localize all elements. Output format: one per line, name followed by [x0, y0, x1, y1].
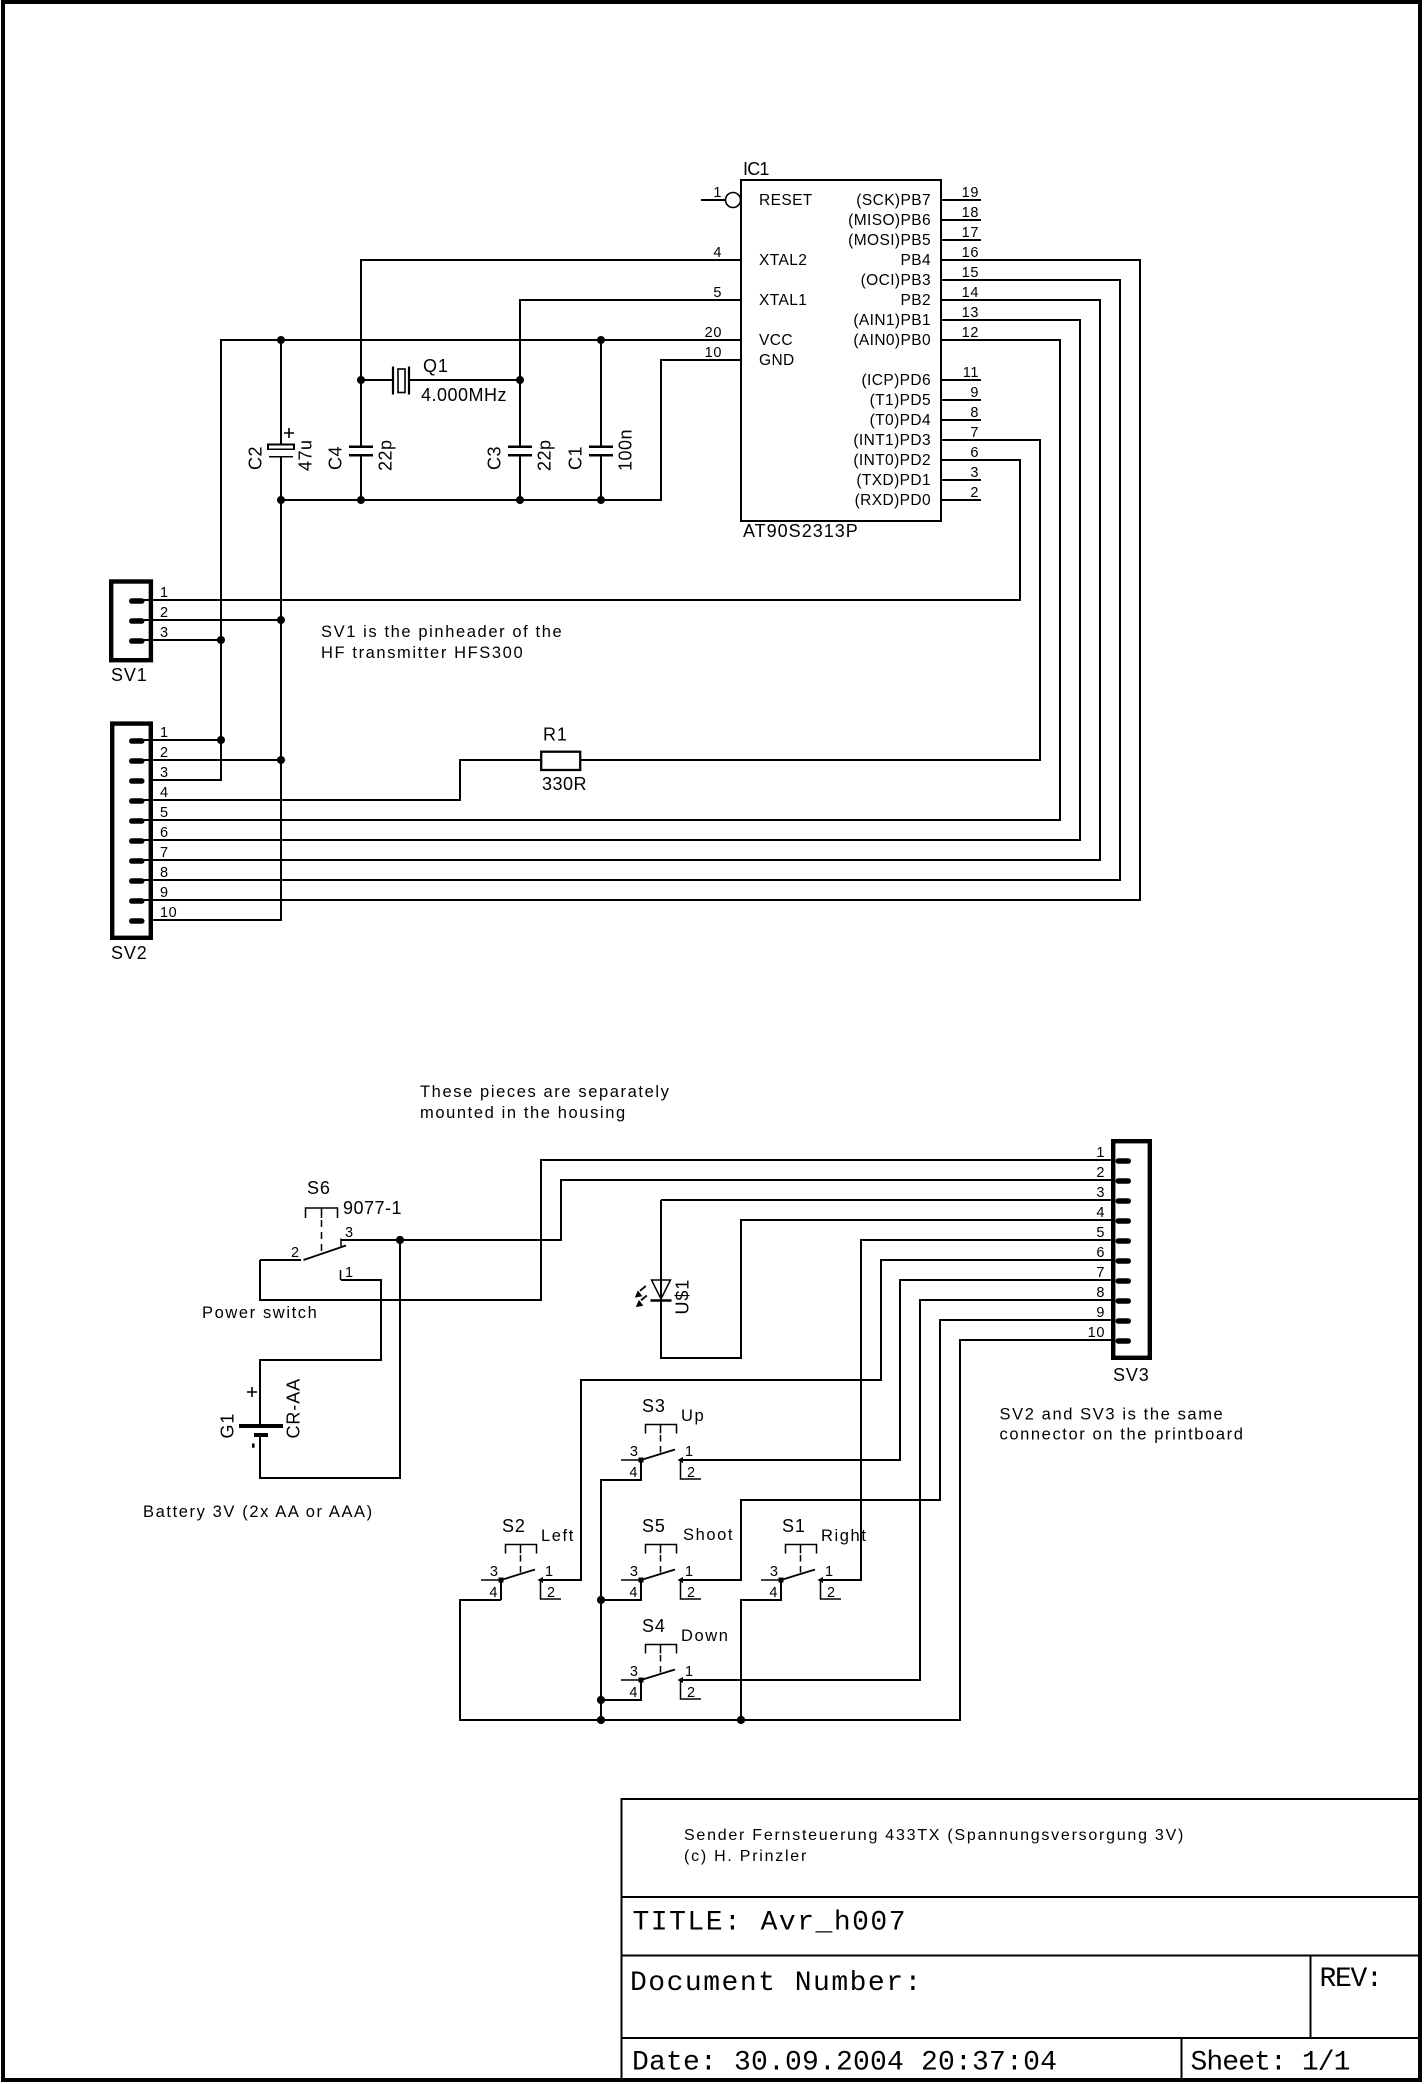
- svg-text:3: 3: [1096, 1185, 1105, 1201]
- svg-text:REV:: REV:: [1320, 1964, 1382, 1995]
- svg-text:SV1: SV1: [111, 665, 148, 685]
- svg-text:Shoot: Shoot: [683, 1526, 734, 1544]
- svg-text:3: 3: [970, 465, 979, 481]
- svg-text:22p: 22p: [535, 439, 555, 471]
- svg-text:1: 1: [160, 725, 169, 741]
- svg-text:SV2 and SV3 is the same: SV2 and SV3 is the same: [1000, 1406, 1225, 1424]
- svg-text:C2: C2: [246, 446, 266, 470]
- svg-text:C1: C1: [566, 446, 586, 470]
- svg-text:7: 7: [1096, 1265, 1105, 1281]
- svg-text:IC1: IC1: [743, 159, 769, 179]
- svg-text:C3: C3: [485, 446, 505, 470]
- svg-text:9: 9: [1096, 1305, 1105, 1321]
- svg-text:(ICP)PD6: (ICP)PD6: [861, 372, 931, 389]
- svg-text:RESET: RESET: [759, 192, 813, 209]
- svg-text:VCC: VCC: [759, 332, 793, 349]
- svg-text:2: 2: [687, 1685, 696, 1701]
- svg-text:3: 3: [160, 625, 169, 641]
- svg-text:10: 10: [160, 905, 177, 921]
- svg-text:(MISO)PB6: (MISO)PB6: [848, 212, 931, 229]
- svg-text:Sender Fernsteuerung 433TX (Sp: Sender Fernsteuerung 433TX (Spannungsver…: [684, 1827, 1185, 1844]
- svg-text:8: 8: [970, 405, 979, 421]
- svg-text:6: 6: [970, 445, 979, 461]
- svg-text:14: 14: [962, 285, 979, 301]
- svg-text:(T0)PD4: (T0)PD4: [870, 412, 931, 429]
- svg-text:PB4: PB4: [901, 252, 932, 269]
- svg-text:XTAL1: XTAL1: [759, 292, 807, 309]
- svg-text:CR-AA: CR-AA: [284, 1378, 304, 1439]
- svg-text:4.000MHz: 4.000MHz: [421, 385, 507, 405]
- svg-text:(AIN1)PB1: (AIN1)PB1: [853, 312, 931, 329]
- svg-text:3: 3: [630, 1444, 639, 1460]
- svg-text:9077-1: 9077-1: [343, 1198, 402, 1218]
- svg-text:XTAL2: XTAL2: [759, 252, 807, 269]
- svg-text:HF transmitter HFS300: HF transmitter HFS300: [321, 644, 524, 662]
- svg-text:1: 1: [1096, 1145, 1105, 1161]
- svg-text:3: 3: [345, 1225, 354, 1241]
- svg-text:13: 13: [962, 305, 979, 321]
- svg-text:(MOSI)PB5: (MOSI)PB5: [848, 232, 931, 249]
- svg-text:3: 3: [160, 765, 169, 781]
- svg-text:S6: S6: [307, 1178, 331, 1198]
- svg-text:R1: R1: [543, 725, 568, 745]
- svg-text:16: 16: [962, 245, 979, 261]
- svg-text:9: 9: [970, 385, 979, 401]
- svg-text:6: 6: [160, 825, 169, 841]
- svg-text:3: 3: [490, 1564, 499, 1580]
- svg-text:19: 19: [962, 185, 979, 201]
- svg-text:(INT0)PD2: (INT0)PD2: [853, 452, 931, 469]
- svg-text:5: 5: [1096, 1225, 1105, 1241]
- svg-text:(c) H. Prinzler: (c) H. Prinzler: [684, 1848, 808, 1865]
- svg-text:2: 2: [1096, 1165, 1105, 1181]
- svg-text:2: 2: [970, 485, 979, 501]
- svg-text:2: 2: [687, 1465, 696, 1481]
- svg-text:U$1: U$1: [673, 1279, 693, 1315]
- svg-text:10: 10: [705, 345, 722, 361]
- svg-text:6: 6: [1096, 1245, 1105, 1261]
- svg-text:4: 4: [629, 1585, 638, 1601]
- svg-text:7: 7: [160, 845, 169, 861]
- svg-text:S4: S4: [642, 1616, 666, 1636]
- svg-text:2: 2: [160, 605, 169, 621]
- svg-text:2: 2: [827, 1585, 836, 1601]
- svg-text:S2: S2: [502, 1516, 526, 1536]
- svg-text:(TXD)PD1: (TXD)PD1: [856, 472, 931, 489]
- svg-text:(AIN0)PB0: (AIN0)PB0: [853, 332, 931, 349]
- svg-text:Q1: Q1: [423, 356, 449, 376]
- svg-text:Sheet: 1/1: Sheet: 1/1: [1191, 2048, 1350, 2079]
- svg-text:S1: S1: [782, 1516, 806, 1536]
- svg-text:Up: Up: [681, 1407, 705, 1425]
- svg-text:3: 3: [630, 1664, 639, 1680]
- svg-text:S3: S3: [642, 1396, 666, 1416]
- svg-text:4: 4: [629, 1685, 638, 1701]
- svg-text:connector on the printboard: connector on the printboard: [1000, 1426, 1245, 1444]
- svg-text:4: 4: [160, 785, 169, 801]
- svg-text:4: 4: [713, 245, 722, 261]
- svg-text:2: 2: [547, 1585, 556, 1601]
- svg-text:S5: S5: [642, 1516, 666, 1536]
- svg-text:AT90S2313P: AT90S2313P: [743, 521, 859, 541]
- svg-text:Date: 30.09.2004 20:37:04: Date: 30.09.2004 20:37:04: [632, 2048, 1057, 2079]
- svg-text:4: 4: [629, 1465, 638, 1481]
- svg-text:47u: 47u: [296, 439, 316, 471]
- svg-text:4: 4: [489, 1585, 498, 1601]
- svg-text:8: 8: [160, 865, 169, 881]
- svg-text:1: 1: [160, 585, 169, 601]
- svg-text:C4: C4: [326, 446, 346, 470]
- svg-text:SV3: SV3: [1113, 1365, 1150, 1385]
- svg-text:4: 4: [769, 1585, 778, 1601]
- svg-text:1: 1: [345, 1265, 354, 1281]
- svg-text:18: 18: [962, 205, 979, 221]
- svg-text:Document Number:: Document Number:: [630, 1968, 923, 1999]
- svg-text:7: 7: [970, 425, 979, 441]
- svg-text:2: 2: [687, 1585, 696, 1601]
- svg-text:Right: Right: [821, 1527, 868, 1545]
- svg-text:G1: G1: [218, 1413, 238, 1439]
- svg-text:1: 1: [545, 1564, 554, 1580]
- svg-text:11: 11: [963, 365, 979, 381]
- svg-text:17: 17: [962, 225, 979, 241]
- svg-text:22p: 22p: [376, 439, 396, 471]
- svg-text:Down: Down: [681, 1627, 730, 1645]
- svg-text:Power switch: Power switch: [202, 1304, 318, 1322]
- svg-text:(RXD)PD0: (RXD)PD0: [855, 492, 931, 509]
- svg-text:(OCI)PB3: (OCI)PB3: [861, 272, 931, 289]
- svg-text:(INT1)PD3: (INT1)PD3: [853, 432, 931, 449]
- svg-text:1: 1: [685, 1664, 694, 1680]
- svg-text:1: 1: [685, 1564, 694, 1580]
- svg-text:GND: GND: [759, 352, 795, 369]
- svg-text:8: 8: [1096, 1285, 1105, 1301]
- svg-text:(SCK)PB7: (SCK)PB7: [856, 192, 931, 209]
- svg-text:These pieces are separately: These pieces are separately: [420, 1083, 670, 1101]
- svg-text:PB2: PB2: [901, 292, 932, 309]
- svg-text:2: 2: [291, 1245, 300, 1261]
- svg-text:SV1 is the pinheader of the: SV1 is the pinheader of the: [321, 623, 563, 641]
- svg-text:20: 20: [705, 325, 722, 341]
- svg-text:4: 4: [1096, 1205, 1105, 1221]
- svg-text:5: 5: [713, 285, 722, 301]
- svg-text:100n: 100n: [616, 429, 636, 471]
- svg-text:1: 1: [713, 185, 722, 201]
- svg-text:9: 9: [160, 885, 169, 901]
- svg-text:1: 1: [825, 1564, 834, 1580]
- svg-text:SV2: SV2: [111, 943, 148, 963]
- svg-text:330R: 330R: [542, 774, 587, 794]
- svg-text:5: 5: [160, 805, 169, 821]
- svg-text:1: 1: [685, 1444, 694, 1460]
- svg-text:(T1)PD5: (T1)PD5: [870, 392, 931, 409]
- svg-text:12: 12: [962, 325, 979, 341]
- svg-text:TITLE: Avr_h007: TITLE: Avr_h007: [633, 1908, 908, 1939]
- svg-text:Left: Left: [541, 1527, 575, 1545]
- svg-text:3: 3: [630, 1564, 639, 1580]
- svg-text:10: 10: [1088, 1325, 1105, 1341]
- svg-text:2: 2: [160, 745, 169, 761]
- svg-text:15: 15: [962, 265, 979, 281]
- svg-text:Battery 3V (2x AA or AAA): Battery 3V (2x AA or AAA): [143, 1503, 374, 1521]
- svg-text:mounted in the housing: mounted in the housing: [420, 1104, 627, 1122]
- svg-text:3: 3: [770, 1564, 779, 1580]
